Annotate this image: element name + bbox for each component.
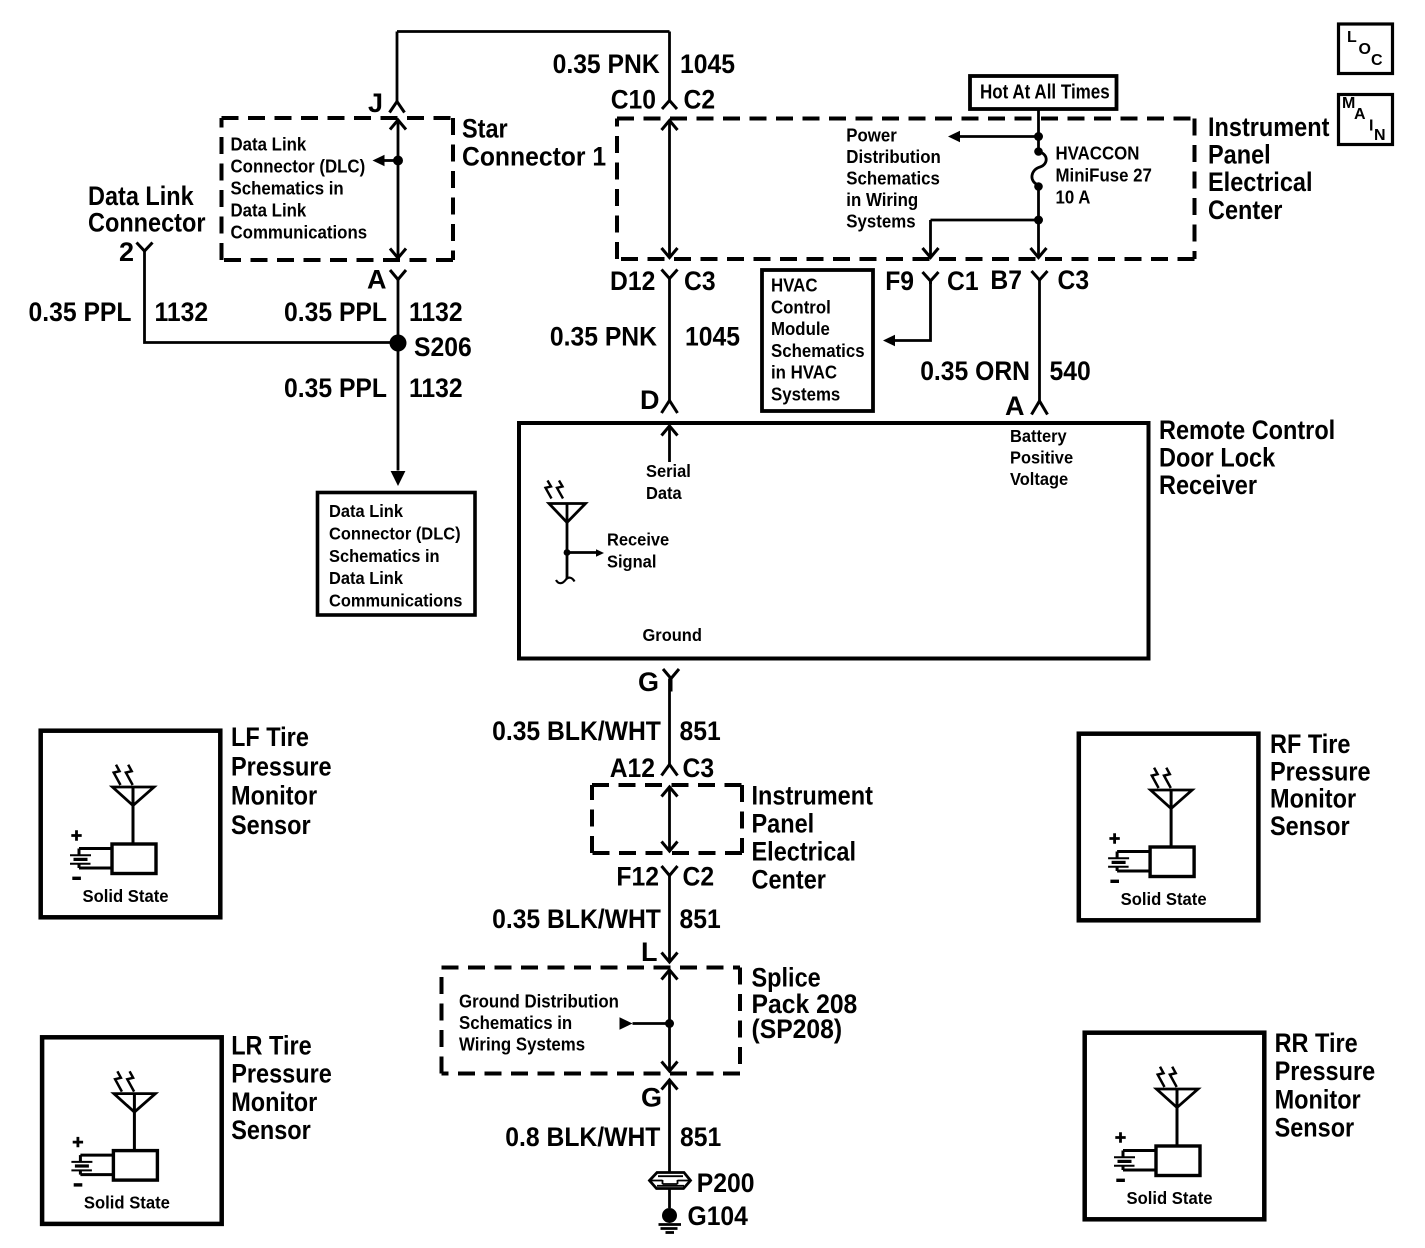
- svg-text:C10: C10: [611, 85, 656, 115]
- svg-text:G: G: [641, 1083, 662, 1113]
- svg-text:MiniFuse 27: MiniFuse 27: [1056, 165, 1152, 186]
- svg-text:Pressure: Pressure: [231, 1059, 332, 1089]
- svg-text:Connector: Connector: [88, 208, 206, 238]
- svg-text:(SP208): (SP208): [752, 1014, 843, 1044]
- svg-text:Schematics: Schematics: [846, 168, 940, 189]
- svg-text:Serial: Serial: [646, 461, 691, 481]
- svg-text:Sensor: Sensor: [1270, 811, 1350, 841]
- svg-text:0.35 PPL: 0.35 PPL: [284, 297, 387, 327]
- svg-text:Sensor: Sensor: [231, 810, 311, 840]
- svg-text:Schematics in: Schematics in: [459, 1012, 572, 1033]
- svg-text:Systems: Systems: [846, 211, 915, 232]
- svg-text:RR Tire: RR Tire: [1275, 1028, 1358, 1058]
- svg-text:Connector (DLC): Connector (DLC): [231, 156, 366, 177]
- svg-text:0.35 PNK: 0.35 PNK: [550, 322, 658, 352]
- svg-text:Receive: Receive: [607, 530, 669, 550]
- svg-text:Center: Center: [752, 864, 827, 894]
- svg-text:C: C: [1371, 52, 1383, 69]
- svg-text:Instrument: Instrument: [752, 780, 873, 810]
- svg-text:Module: Module: [771, 318, 830, 339]
- svg-text:Star: Star: [462, 114, 508, 144]
- svg-text:Wiring Systems: Wiring Systems: [459, 1033, 585, 1054]
- svg-text:1132: 1132: [409, 373, 463, 403]
- svg-text:N: N: [1374, 127, 1386, 144]
- svg-text:RF Tire: RF Tire: [1270, 729, 1351, 759]
- svg-text:C3: C3: [684, 266, 716, 296]
- svg-text:I: I: [1369, 118, 1373, 135]
- svg-text:F12: F12: [616, 861, 659, 891]
- svg-text:851: 851: [680, 716, 721, 746]
- svg-text:LF Tire: LF Tire: [231, 722, 309, 752]
- svg-text:C2: C2: [683, 861, 715, 891]
- svg-text:Remote Control: Remote Control: [1159, 415, 1335, 445]
- svg-text:C2: C2: [684, 85, 716, 115]
- svg-text:Connector (DLC): Connector (DLC): [329, 523, 461, 543]
- svg-text:Voltage: Voltage: [1010, 469, 1068, 489]
- svg-text:Sensor: Sensor: [231, 1115, 311, 1145]
- svg-text:Ground Distribution: Ground Distribution: [459, 991, 619, 1012]
- svg-text:C3: C3: [683, 753, 715, 783]
- svg-text:Systems: Systems: [771, 384, 840, 405]
- svg-text:Sensor: Sensor: [1275, 1113, 1355, 1143]
- svg-text:0.35 PNK: 0.35 PNK: [553, 49, 661, 79]
- svg-text:10 A: 10 A: [1056, 187, 1091, 208]
- svg-text:Center: Center: [1208, 195, 1283, 225]
- svg-text:Instrument: Instrument: [1208, 112, 1329, 142]
- svg-text:Positive: Positive: [1010, 448, 1073, 468]
- svg-text:0.35 ORN: 0.35 ORN: [920, 356, 1030, 386]
- svg-text:0.35 BLK/WHT: 0.35 BLK/WHT: [492, 716, 661, 746]
- svg-text:Data Link: Data Link: [231, 134, 307, 155]
- svg-text:Signal: Signal: [607, 552, 656, 572]
- svg-text:Pressure: Pressure: [1270, 756, 1371, 786]
- svg-text:A: A: [367, 265, 387, 295]
- svg-text:D12: D12: [610, 266, 655, 296]
- svg-text:Schematics in: Schematics in: [231, 178, 344, 199]
- svg-text:Electrical: Electrical: [752, 836, 857, 866]
- svg-text:B7: B7: [990, 265, 1022, 295]
- svg-text:Data Link: Data Link: [329, 568, 403, 588]
- svg-text:Power: Power: [846, 125, 897, 146]
- svg-text:LR Tire: LR Tire: [231, 1031, 312, 1061]
- svg-text:Pressure: Pressure: [1275, 1056, 1376, 1086]
- svg-text:HVACCON: HVACCON: [1056, 143, 1140, 164]
- svg-text:Receiver: Receiver: [1159, 470, 1257, 500]
- svg-text:Solid State: Solid State: [1121, 889, 1207, 909]
- svg-text:540: 540: [1050, 356, 1091, 386]
- svg-text:0.35 PPL: 0.35 PPL: [29, 297, 132, 327]
- svg-text:D: D: [640, 385, 660, 415]
- svg-text:L: L: [641, 937, 658, 967]
- svg-text:0.35 BLK/WHT: 0.35 BLK/WHT: [492, 904, 661, 934]
- svg-text:Data: Data: [646, 483, 682, 503]
- svg-text:Data Link: Data Link: [231, 200, 307, 221]
- svg-text:L: L: [1347, 29, 1357, 46]
- svg-text:G: G: [638, 667, 659, 697]
- svg-text:G104: G104: [688, 1201, 748, 1231]
- svg-text:Monitor: Monitor: [231, 781, 318, 811]
- svg-text:in Wiring: in Wiring: [846, 189, 918, 210]
- svg-text:HVAC: HVAC: [771, 275, 818, 296]
- svg-text:Connector 1: Connector 1: [462, 142, 606, 172]
- svg-text:Panel: Panel: [1208, 140, 1271, 170]
- svg-text:Solid State: Solid State: [83, 886, 169, 906]
- svg-text:in HVAC: in HVAC: [771, 362, 837, 383]
- svg-text:Monitor: Monitor: [1270, 784, 1357, 814]
- svg-text:A: A: [1005, 391, 1025, 421]
- svg-text:Door Lock: Door Lock: [1159, 443, 1276, 473]
- svg-text:0.8 BLK/WHT: 0.8 BLK/WHT: [505, 1122, 661, 1152]
- svg-text:Schematics: Schematics: [771, 340, 865, 361]
- svg-text:851: 851: [680, 904, 721, 934]
- svg-text:Hot At All Times: Hot At All Times: [980, 81, 1110, 103]
- svg-text:C3: C3: [1058, 265, 1090, 295]
- svg-text:1132: 1132: [155, 297, 209, 327]
- svg-text:S206: S206: [414, 332, 472, 362]
- svg-text:Monitor: Monitor: [231, 1087, 318, 1117]
- svg-text:Panel: Panel: [752, 808, 815, 838]
- svg-text:Monitor: Monitor: [1275, 1084, 1362, 1114]
- svg-text:Battery: Battery: [1010, 426, 1067, 446]
- svg-text:Distribution: Distribution: [846, 146, 941, 167]
- svg-text:Solid State: Solid State: [1127, 1188, 1213, 1208]
- svg-text:1132: 1132: [409, 297, 463, 327]
- svg-text:C1: C1: [947, 266, 979, 296]
- svg-text:P200: P200: [697, 1168, 755, 1198]
- svg-text:851: 851: [680, 1122, 721, 1152]
- svg-text:Data Link: Data Link: [88, 181, 195, 211]
- svg-text:Pressure: Pressure: [231, 751, 332, 781]
- svg-text:Electrical: Electrical: [1208, 167, 1313, 197]
- svg-text:Data Link: Data Link: [329, 501, 403, 521]
- svg-text:A: A: [1354, 106, 1366, 123]
- svg-text:J: J: [368, 88, 383, 118]
- svg-text:1045: 1045: [680, 49, 735, 79]
- svg-text:Communications: Communications: [329, 591, 463, 611]
- svg-text:Schematics in: Schematics in: [329, 546, 440, 566]
- svg-text:Control: Control: [771, 296, 831, 317]
- svg-text:1045: 1045: [685, 322, 740, 352]
- svg-text:Solid State: Solid State: [84, 1193, 170, 1213]
- svg-text:O: O: [1359, 41, 1371, 58]
- svg-text:0.35 PPL: 0.35 PPL: [284, 373, 387, 403]
- svg-text:F9: F9: [885, 266, 914, 296]
- svg-text:2: 2: [119, 237, 134, 267]
- svg-text:A12: A12: [610, 753, 655, 783]
- svg-text:Communications: Communications: [231, 222, 368, 243]
- svg-text:Ground: Ground: [643, 625, 702, 645]
